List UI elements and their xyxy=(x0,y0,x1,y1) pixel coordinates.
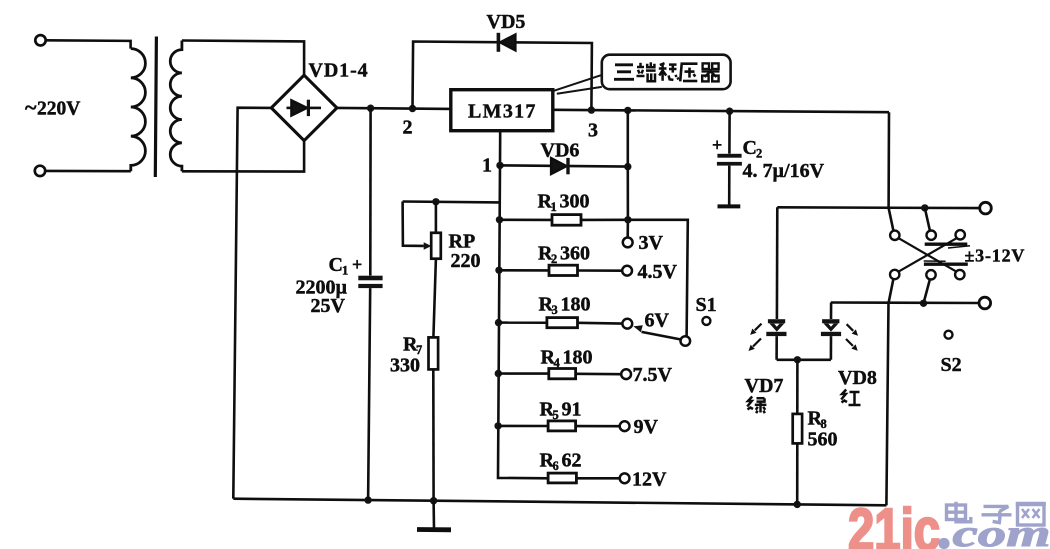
svg-text:C: C xyxy=(743,137,757,159)
diode VD5 xyxy=(497,33,516,52)
svg-text:330: 330 xyxy=(390,355,420,377)
svg-text:7.5V: 7.5V xyxy=(633,364,673,386)
label 绿 (drawn glyph) xyxy=(747,397,766,414)
node: output terminal bottom xyxy=(979,297,991,309)
ground symbol xyxy=(417,501,451,530)
resistor R8 body xyxy=(796,360,799,414)
wire: LED cathode join xyxy=(777,358,831,361)
label R4 value xyxy=(541,347,593,371)
svg-text:VD1-4: VD1-4 xyxy=(309,60,369,82)
svg-text:6V: 6V xyxy=(645,309,670,331)
label R8 value xyxy=(808,408,838,451)
三 xyxy=(615,63,633,66)
wire: VD6 row xyxy=(500,165,628,166)
node: S2 contact C xyxy=(956,230,965,239)
wire: output column vertical xyxy=(626,110,629,237)
wire: positive output rail (top) xyxy=(777,206,980,209)
svg-text:4. 7µ/16V: 4. 7µ/16V xyxy=(743,160,825,182)
label C1 value xyxy=(296,254,363,317)
svg-text:180: 180 xyxy=(561,294,591,316)
svg-text:62: 62 xyxy=(562,450,582,472)
wire: LM317 pin1 lead xyxy=(499,131,502,166)
wire: ground rail xyxy=(233,499,886,506)
label R3 value xyxy=(539,294,591,318)
wire: RP wiper link xyxy=(403,202,424,246)
node: AC input terminal top xyxy=(35,35,45,45)
svg-text:~: ~ xyxy=(25,95,37,120)
svg-text:S2: S2 xyxy=(941,354,962,376)
node: 6V tap xyxy=(622,319,632,329)
junction: R7/ground node xyxy=(430,497,437,504)
svg-text:3: 3 xyxy=(552,303,558,317)
wire: selector S1 feed xyxy=(628,220,688,337)
wire: S2 cross link A-F xyxy=(898,238,956,272)
node: S2 contact E xyxy=(926,270,935,279)
svg-text:C: C xyxy=(329,254,343,276)
wire: VD5 bypass loop xyxy=(413,42,592,111)
label R7 value xyxy=(390,334,422,377)
node: AC input terminal bottom xyxy=(35,166,45,176)
diode VD6 xyxy=(551,158,570,174)
resistor R5 row xyxy=(494,422,501,429)
svg-text:300: 300 xyxy=(560,191,590,213)
bridge rectifier inner diode xyxy=(287,100,322,116)
svg-text:2: 2 xyxy=(756,147,762,161)
node: S1 common contact xyxy=(681,336,691,346)
稳 xyxy=(660,63,665,65)
svg-text:9V: 9V xyxy=(634,416,659,438)
capacitor C2 xyxy=(717,111,742,206)
node: 9V tap xyxy=(620,421,630,431)
label R2 value xyxy=(538,243,590,267)
压 xyxy=(681,62,698,65)
svg-text:3V: 3V xyxy=(639,232,664,254)
resistor R4 row xyxy=(495,370,502,377)
svg-text:±3-12V: ±3-12V xyxy=(965,245,1026,265)
svg-text:12V: 12V xyxy=(632,469,667,491)
switch S2 wiper bar upper xyxy=(925,242,968,245)
label 三端稳压器 (drawn glyphs) xyxy=(614,62,720,81)
svg-text:+: + xyxy=(352,255,362,275)
svg-text:1: 1 xyxy=(482,155,492,177)
svg-text:25V: 25V xyxy=(311,295,346,317)
junction: RP top node xyxy=(432,198,439,205)
label 红 (drawn glyph) xyxy=(841,390,860,406)
svg-text:LM317: LM317 xyxy=(468,101,537,123)
node: 12V tap xyxy=(620,473,630,483)
wire: R7 bottom lead xyxy=(432,369,435,500)
junction: C2 top node xyxy=(726,108,733,115)
svg-text:2: 2 xyxy=(403,117,413,139)
junction: R8 bottom node xyxy=(794,501,801,508)
junction: output column node xyxy=(624,107,631,114)
svg-text:4: 4 xyxy=(554,356,561,370)
wire: S2 cross link D-C xyxy=(898,238,956,272)
wire: +V feed to S2 pole A xyxy=(889,112,894,231)
LED VD8 xyxy=(821,303,841,360)
potentiometer RP body xyxy=(431,233,441,259)
node: S2 contact F xyxy=(955,270,964,279)
svg-text:220: 220 xyxy=(451,250,481,272)
junction: S2 bottom output node xyxy=(920,300,927,307)
RP wiper arrowhead xyxy=(424,242,432,249)
LED VD7 xyxy=(766,207,786,359)
wire: main +V rail left of LM317 xyxy=(337,108,451,109)
wire: bridge left corner to ground rail xyxy=(233,108,271,499)
wire: adjust bus (pin1 down) xyxy=(498,165,548,478)
resistor R2 row xyxy=(495,267,502,274)
器 xyxy=(703,63,709,69)
node: 7.5V tap xyxy=(621,369,631,379)
wire: bottom input lead xyxy=(46,170,131,173)
LED VD8 emission arrows xyxy=(846,324,858,351)
label RP value xyxy=(449,231,481,272)
svg-text:91: 91 xyxy=(562,399,582,421)
wire: B contact feed xyxy=(925,208,930,231)
transformer T primary winding xyxy=(131,49,146,172)
LM317 regulator U1 box xyxy=(451,90,553,131)
node: output terminal top xyxy=(980,202,992,214)
resistor R3 row xyxy=(495,319,502,326)
wire: E contact feed xyxy=(924,279,930,303)
junction: R8 top node xyxy=(794,356,801,363)
label R1 value xyxy=(538,191,590,215)
label R6 value xyxy=(540,450,582,474)
svg-text:2: 2 xyxy=(551,252,557,266)
junction: VD6 cathode node xyxy=(624,163,631,170)
svg-text:4.5V: 4.5V xyxy=(638,261,678,283)
node: S2 contact B xyxy=(927,231,936,240)
switch S2 wiper bar lower xyxy=(924,260,946,262)
svg-text:220V: 220V xyxy=(37,99,80,120)
svg-text:1: 1 xyxy=(342,264,348,278)
wire: negative output rail (bottom) xyxy=(831,301,979,304)
node: S2 contact D xyxy=(890,270,899,279)
node: S2 aux circle xyxy=(945,331,953,339)
label R5 value xyxy=(540,399,582,423)
svg-text:180: 180 xyxy=(563,347,593,369)
wire: secondary top to bridge xyxy=(182,41,304,76)
callout box 三端稳压器 xyxy=(554,55,731,94)
svg-text:6: 6 xyxy=(553,459,559,473)
transformer T secondary winding xyxy=(170,41,182,172)
transformer core xyxy=(155,37,156,178)
junction: C1 top node xyxy=(367,105,374,112)
svg-text:VD7: VD7 xyxy=(745,375,784,397)
node: S1 aux circle xyxy=(702,317,710,325)
label C2 value xyxy=(712,135,825,182)
svg-text:VD8: VD8 xyxy=(838,367,877,389)
svg-text:560: 560 xyxy=(808,429,838,451)
junction: LM317 pin2 node xyxy=(409,105,416,112)
resistor R6 row xyxy=(548,473,576,483)
resistor R1 row xyxy=(496,216,503,223)
svg-text:1: 1 xyxy=(551,200,557,214)
svg-text:360: 360 xyxy=(560,243,590,265)
logo 21ic.com watermark xyxy=(848,497,1050,549)
label ~220V xyxy=(25,95,80,120)
junction: S2 top output node xyxy=(921,204,928,211)
junction: C1 bottom node xyxy=(364,496,371,503)
node: 3V tap xyxy=(623,238,633,248)
wire: ground feed to S2 pole D xyxy=(886,279,893,505)
wire: secondary bottom to bridge bottom corner xyxy=(182,141,304,172)
wire: RP top tee xyxy=(403,200,500,203)
svg-text:VD5: VD5 xyxy=(487,11,526,33)
svg-text:S1: S1 xyxy=(696,294,717,316)
junction: pin1 node xyxy=(496,162,503,169)
bridge rectifier VD1-4 diamond xyxy=(271,75,337,140)
junction: VD5 cathode-side node xyxy=(588,106,595,113)
wire: RP top lead xyxy=(435,202,438,233)
svg-text:+: + xyxy=(712,135,722,155)
端 xyxy=(637,66,644,69)
LED VD7 emission arrows xyxy=(749,324,762,351)
switch S1 wiper xyxy=(642,332,682,340)
svg-text:3: 3 xyxy=(588,120,598,142)
node: S2 contact A xyxy=(890,231,899,240)
node: 4.5V tap xyxy=(622,266,632,276)
svg-text:VD6: VD6 xyxy=(541,140,580,162)
wire: top input lead xyxy=(46,40,131,48)
capacitor C1 xyxy=(358,108,382,500)
wire: main +V rail right of LM317 xyxy=(553,110,889,112)
wire: RP to R7 xyxy=(433,259,436,338)
svg-text:5: 5 xyxy=(553,408,559,422)
resistor R7 body xyxy=(429,337,439,369)
